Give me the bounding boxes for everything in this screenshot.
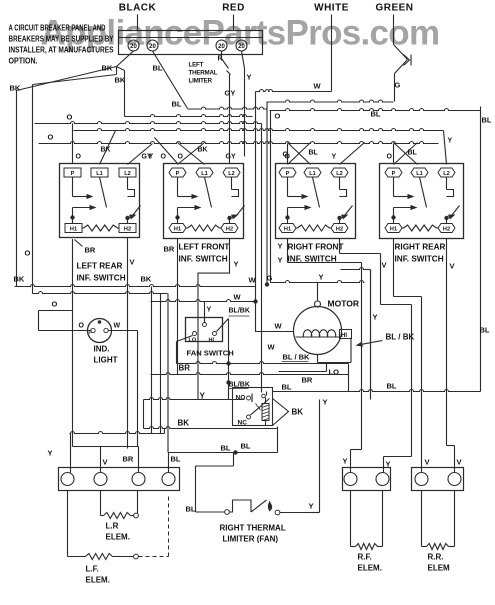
svg-text:BL: BL bbox=[309, 150, 319, 157]
svg-text:V: V bbox=[425, 458, 430, 467]
svg-text:ELEM.: ELEM. bbox=[86, 576, 110, 585]
svg-text:NO: NO bbox=[236, 395, 246, 402]
svg-text:20: 20 bbox=[218, 44, 225, 50]
svg-text:BL: BL bbox=[172, 100, 182, 109]
svg-text:H2: H2 bbox=[124, 226, 131, 232]
svg-text:L.R: L.R bbox=[106, 522, 119, 531]
svg-text:INF. SWITCH: INF. SWITCH bbox=[77, 274, 126, 283]
svg-text:LEFT: LEFT bbox=[189, 62, 204, 69]
svg-text:Y: Y bbox=[448, 138, 453, 145]
svg-text:BREAKERS MAY BE SUPPLIED BY: BREAKERS MAY BE SUPPLIED BY bbox=[9, 35, 115, 44]
svg-text:H2: H2 bbox=[226, 226, 233, 232]
svg-text:Y: Y bbox=[309, 502, 314, 511]
svg-text:BL: BL bbox=[153, 64, 163, 73]
svg-text:O: O bbox=[387, 154, 393, 161]
svg-text:HI: HI bbox=[341, 333, 347, 339]
svg-text:RED: RED bbox=[222, 3, 245, 14]
svg-text:Y: Y bbox=[343, 457, 348, 466]
svg-text:Y: Y bbox=[278, 256, 283, 265]
svg-text:O: O bbox=[79, 323, 85, 330]
svg-text:Y: Y bbox=[373, 313, 378, 322]
svg-text:20: 20 bbox=[238, 44, 245, 50]
svg-text:O: O bbox=[25, 249, 31, 258]
svg-text:BR: BR bbox=[164, 245, 175, 254]
svg-text:P: P bbox=[392, 171, 396, 177]
svg-text:GY: GY bbox=[225, 89, 236, 98]
svg-text:MOTOR: MOTOR bbox=[328, 299, 359, 309]
svg-text:NC: NC bbox=[238, 420, 248, 427]
svg-text:BL: BL bbox=[480, 326, 490, 335]
svg-text:H2: H2 bbox=[443, 226, 450, 232]
svg-text:LIMITER (FAN): LIMITER (FAN) bbox=[223, 535, 279, 544]
svg-text:BL / BK: BL / BK bbox=[283, 353, 311, 362]
svg-text:ELEM: ELEM bbox=[428, 564, 451, 573]
svg-text:L1: L1 bbox=[416, 171, 423, 177]
svg-text:W: W bbox=[275, 322, 283, 331]
svg-text:BK: BK bbox=[178, 419, 190, 428]
svg-text:BL: BL bbox=[371, 110, 381, 119]
svg-text:W: W bbox=[314, 82, 322, 91]
svg-text:BL: BL bbox=[282, 383, 292, 392]
svg-text:BR: BR bbox=[179, 364, 191, 373]
svg-text:BL: BL bbox=[408, 150, 418, 157]
svg-text:FAN SWITCH: FAN SWITCH bbox=[187, 349, 234, 358]
svg-text:H1: H1 bbox=[284, 226, 291, 232]
svg-text:RIGHT FRONT: RIGHT FRONT bbox=[288, 243, 344, 252]
svg-text:ELEM.: ELEM. bbox=[358, 564, 382, 573]
svg-text:G: G bbox=[395, 81, 401, 90]
svg-text:BK: BK bbox=[101, 147, 111, 154]
svg-text:BR: BR bbox=[85, 246, 96, 255]
svg-text:Y: Y bbox=[149, 154, 154, 161]
svg-text:L2: L2 bbox=[443, 171, 450, 177]
svg-text:Y: Y bbox=[319, 273, 324, 282]
svg-text:LIGHT: LIGHT bbox=[94, 356, 118, 365]
svg-text:LO: LO bbox=[329, 368, 340, 377]
svg-text:Y: Y bbox=[48, 449, 53, 458]
svg-text:H2: H2 bbox=[336, 226, 343, 232]
svg-text:BK: BK bbox=[292, 408, 304, 417]
svg-text:L2: L2 bbox=[336, 171, 343, 177]
svg-text:BL: BL bbox=[186, 505, 196, 514]
svg-text:P: P bbox=[286, 171, 290, 177]
svg-text:BL / BK: BL / BK bbox=[386, 333, 415, 342]
svg-text:R.R.: R.R. bbox=[428, 553, 444, 562]
svg-text:Y: Y bbox=[207, 307, 212, 314]
svg-text:THERMAL: THERMAL bbox=[189, 70, 218, 77]
svg-text:O: O bbox=[178, 154, 184, 161]
svg-text:Y: Y bbox=[247, 73, 252, 82]
svg-text:BK: BK bbox=[14, 275, 25, 284]
svg-text:V: V bbox=[450, 262, 455, 271]
svg-text:WHITE: WHITE bbox=[314, 3, 349, 14]
svg-text:BK: BK bbox=[10, 84, 21, 93]
svg-text:BK: BK bbox=[198, 147, 208, 154]
svg-text:L.F.: L.F. bbox=[86, 565, 99, 574]
svg-text:O: O bbox=[48, 133, 54, 142]
svg-text:W: W bbox=[234, 293, 242, 302]
svg-text:20: 20 bbox=[149, 44, 156, 50]
svg-text:O: O bbox=[161, 154, 167, 161]
svg-text:W: W bbox=[268, 343, 276, 352]
svg-text:BK: BK bbox=[141, 275, 152, 284]
svg-text:O: O bbox=[67, 113, 73, 122]
svg-text:BLACK: BLACK bbox=[119, 3, 157, 14]
svg-text:BL: BL bbox=[387, 382, 397, 391]
svg-text:LIMITER: LIMITER bbox=[189, 78, 213, 85]
svg-text:A CIRCUIT BREAKER PANEL AND: A CIRCUIT BREAKER PANEL AND bbox=[9, 24, 106, 33]
svg-text:INSTALLER, AT MANUFACTURES: INSTALLER, AT MANUFACTURES bbox=[9, 46, 114, 55]
svg-text:R.F.: R.F. bbox=[358, 553, 372, 562]
svg-text:W: W bbox=[114, 323, 121, 330]
svg-text:BL: BL bbox=[171, 455, 181, 464]
svg-text:O: O bbox=[275, 112, 281, 121]
svg-text:Y: Y bbox=[234, 260, 239, 269]
svg-text:L1: L1 bbox=[201, 171, 208, 177]
svg-text:BR: BR bbox=[123, 455, 134, 464]
svg-text:OPTION.: OPTION. bbox=[9, 57, 38, 66]
svg-text:INF. SWITCH: INF. SWITCH bbox=[179, 255, 228, 264]
svg-text:LEFT REAR: LEFT REAR bbox=[77, 262, 123, 271]
svg-text:O: O bbox=[52, 300, 58, 309]
svg-text:V: V bbox=[382, 261, 387, 270]
svg-text:BL/BK: BL/BK bbox=[229, 308, 250, 315]
svg-text:HI: HI bbox=[209, 338, 215, 344]
svg-text:V: V bbox=[103, 458, 108, 467]
svg-text:BR: BR bbox=[302, 376, 313, 385]
svg-text:Y: Y bbox=[323, 398, 328, 407]
svg-text:LO: LO bbox=[189, 338, 197, 344]
svg-text:L2: L2 bbox=[228, 171, 235, 177]
svg-text:IND.: IND. bbox=[94, 345, 110, 354]
svg-text:GY: GY bbox=[226, 154, 236, 161]
svg-text:L1: L1 bbox=[96, 171, 103, 177]
svg-text:GREEN: GREEN bbox=[375, 3, 413, 14]
svg-text:BK: BK bbox=[102, 64, 113, 73]
svg-text:RIGHT THERMAL: RIGHT THERMAL bbox=[220, 524, 286, 533]
svg-text:H1: H1 bbox=[70, 226, 77, 232]
svg-text:INF. SWITCH: INF. SWITCH bbox=[395, 255, 444, 264]
svg-text:P: P bbox=[71, 171, 75, 177]
svg-text:V: V bbox=[130, 258, 135, 267]
svg-text:LEFT FRONT: LEFT FRONT bbox=[179, 243, 230, 252]
svg-text:ELEM.: ELEM. bbox=[106, 533, 130, 542]
svg-text:V: V bbox=[457, 458, 462, 467]
svg-text:G: G bbox=[267, 274, 273, 283]
svg-text:Y: Y bbox=[332, 154, 337, 161]
svg-text:O: O bbox=[285, 154, 291, 161]
svg-text:Y: Y bbox=[278, 242, 283, 251]
svg-text:L1: L1 bbox=[309, 171, 316, 177]
svg-text:BL: BL bbox=[221, 444, 231, 453]
svg-text:H1: H1 bbox=[390, 226, 397, 232]
svg-text:BL: BL bbox=[241, 442, 251, 451]
svg-text:BL: BL bbox=[482, 116, 492, 125]
svg-text:W: W bbox=[249, 276, 257, 285]
svg-text:L2: L2 bbox=[124, 171, 131, 177]
svg-text:RIGHT REAR: RIGHT REAR bbox=[395, 243, 446, 252]
svg-text:H1: H1 bbox=[174, 226, 181, 232]
svg-text:20: 20 bbox=[130, 44, 137, 50]
svg-text:P: P bbox=[176, 171, 180, 177]
svg-text:O: O bbox=[76, 154, 82, 161]
